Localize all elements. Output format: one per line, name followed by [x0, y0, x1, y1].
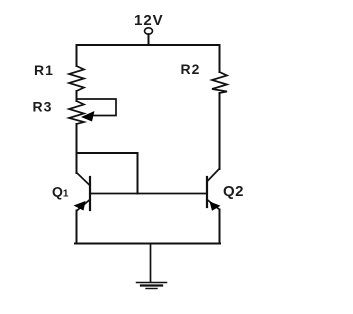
wire R1 to R3	[76, 91, 78, 101]
ground bar 2	[141, 284, 162, 286]
Q1 collector	[77, 173, 91, 186]
svg-text:R2: R2	[181, 61, 201, 77]
resistor R1	[69, 66, 84, 91]
wire left mid segment	[76, 124, 78, 173]
ground bar 3	[146, 288, 157, 290]
resistor R2	[212, 72, 227, 93]
R3 wiper arrowhead	[81, 111, 95, 122]
Q2 emitter	[207, 200, 220, 210]
Q1 emitter arrowhead	[74, 201, 86, 211]
svg-text:12V: 12V	[134, 12, 164, 29]
ground stem	[150, 244, 152, 283]
svg-text:R1: R1	[34, 62, 54, 78]
Q1 emitter	[77, 200, 90, 211]
wire R3 wiper loop	[77, 99, 117, 116]
svg-text:R3: R3	[33, 99, 53, 115]
Q2 emitter arrowhead	[210, 202, 221, 211]
transistor Q1 base bar	[89, 177, 91, 210]
wire bottom rail	[75, 243, 220, 245]
wire base rail Q1-Q2	[90, 193, 207, 195]
wire Q2 emitter down	[219, 210, 221, 244]
wire Q1 emitter down	[76, 211, 78, 244]
transistor Q2 base bar	[206, 177, 208, 207]
wire collector-base tie	[77, 153, 138, 194]
wire right mid segment	[219, 93, 221, 169]
potentiometer R3	[69, 101, 84, 124]
wire left top segment	[76, 45, 78, 66]
wire right top segment	[219, 45, 221, 72]
svg-text:Q1: Q1	[52, 184, 69, 200]
wire terminal stem	[148, 34, 150, 45]
ground bar 1	[137, 282, 167, 284]
wire top rail	[77, 44, 220, 46]
power terminal circle	[145, 28, 153, 34]
Q2 collector	[207, 169, 220, 182]
svg-text:Q2: Q2	[223, 183, 244, 200]
